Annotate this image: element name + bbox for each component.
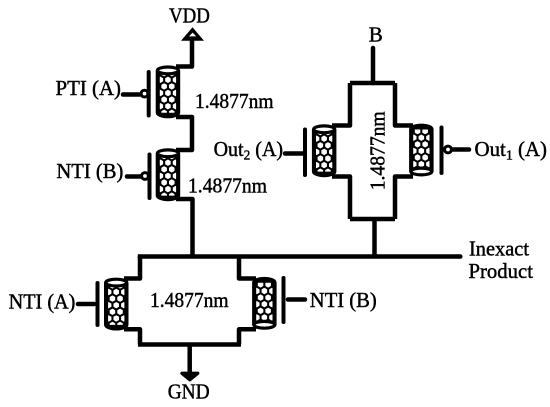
wire GND stub bbox=[187, 345, 192, 374]
transistor Out2 (A) gate bar bbox=[303, 130, 307, 176]
wire NTI gate lead bbox=[127, 174, 141, 179]
wire bottom box left bbox=[124, 257, 140, 279]
svg-text:PTI (A): PTI (A) bbox=[56, 76, 122, 100]
svg-text:Inexact: Inexact bbox=[469, 237, 529, 261]
transistor PTI (A) gate bubble bbox=[141, 90, 148, 97]
svg-text:NTI (B): NTI (B) bbox=[56, 159, 123, 183]
wire TG output down bbox=[372, 219, 377, 257]
wire TG box top edge bbox=[350, 81, 395, 86]
wire TG right gate lead bbox=[453, 147, 469, 152]
wire TG box right bbox=[395, 83, 413, 126]
transistor Out1 (A) gate bar bbox=[440, 128, 444, 174]
wire TG box bottom edge bbox=[350, 217, 395, 222]
wire PTI drain elbow bbox=[176, 62, 192, 67]
svg-text:GND: GND bbox=[168, 379, 210, 403]
transistor NTI (B) gate bar bbox=[282, 278, 286, 322]
wire bottom box bottom edge bbox=[138, 342, 241, 347]
wire bottom box right bbox=[239, 257, 256, 279]
transistor NTI (A) cylinder (bottom left) bbox=[106, 279, 127, 329]
transistor NTI (B) gate bubble bbox=[142, 173, 149, 180]
svg-text:1.4877nm: 1.4877nm bbox=[365, 111, 389, 190]
svg-text:1.4877nm: 1.4877nm bbox=[195, 89, 274, 113]
transistor NTI (B) cylinder (bottom right) bbox=[254, 279, 275, 329]
transistor NTI (A) gate bar bbox=[96, 283, 100, 325]
wire bottom left gate lead bbox=[78, 302, 94, 307]
transistor PTI (A) gate bar bbox=[147, 72, 151, 116]
wire VDD stub bbox=[190, 40, 195, 62]
wire inexact product line bbox=[138, 254, 459, 259]
ground GND arrow bbox=[182, 373, 198, 379]
power VDD arrow bbox=[181, 27, 204, 40]
wire bottom right gate lead bbox=[288, 297, 305, 302]
svg-text:VDD: VDD bbox=[169, 4, 210, 28]
svg-text:1.4877nm: 1.4877nm bbox=[150, 288, 229, 312]
svg-text:1.4877nm: 1.4877nm bbox=[188, 174, 267, 198]
wire TG left gate lead bbox=[285, 151, 303, 156]
transistor PTI (A) cylinder bbox=[157, 67, 178, 117]
transistor NTI (B) cylinder bbox=[157, 150, 178, 200]
wire PTI gate lead bbox=[123, 92, 140, 97]
svg-text:NTI (A): NTI (A) bbox=[9, 290, 76, 314]
wire B input bbox=[371, 48, 376, 83]
wire NTI source down to product line bbox=[176, 199, 193, 258]
transistor Out2 (A) cylinder (TG left) bbox=[314, 126, 335, 176]
transistor Out1 (A) gate bubble bbox=[445, 146, 452, 153]
svg-text:Out1 (A): Out1 (A) bbox=[475, 137, 548, 164]
svg-text:NTI (B): NTI (B) bbox=[310, 288, 377, 312]
wire PTI source to NTI drain bbox=[176, 117, 192, 150]
transistor Out1 (A) cylinder (TG right) bbox=[411, 125, 432, 175]
wire TG box outline left bbox=[332, 83, 350, 126]
svg-text:Out2 (A): Out2 (A) bbox=[214, 137, 284, 164]
svg-text:B: B bbox=[369, 23, 383, 47]
svg-text:Product: Product bbox=[469, 259, 534, 283]
transistor NTI (B) gate bar bbox=[148, 155, 152, 199]
